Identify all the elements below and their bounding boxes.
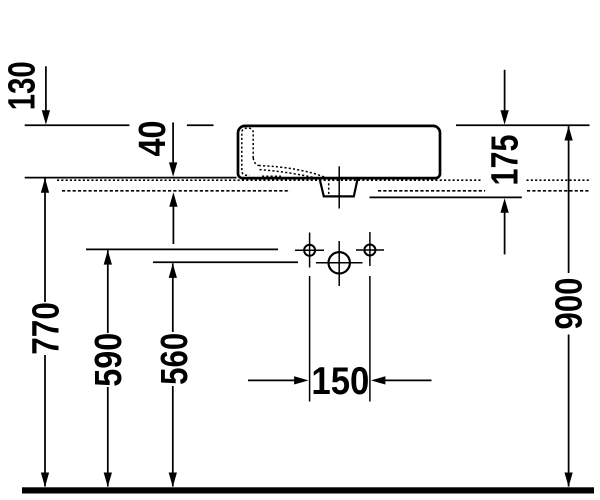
level line 590 — [86, 248, 278, 250]
counter underside dashed line right — [527, 190, 590, 192]
rim level line left segment — [25, 124, 130, 126]
counter underside dashed line middle — [378, 190, 485, 192]
extension line from right hole — [369, 276, 371, 402]
dimension 40 lower arrow — [172, 206, 174, 244]
basin outline — [238, 126, 440, 178]
counter top dotted line — [57, 179, 481, 181]
dimension 560 line — [172, 263, 174, 332]
faucet hole small left circle — [304, 245, 315, 256]
dimension 130 arrow — [45, 66, 47, 111]
dimension 150 left arrow — [248, 379, 295, 381]
svg-text:900: 900 — [549, 278, 591, 330]
svg-text:560: 560 — [154, 333, 196, 385]
dimension 590 line — [107, 250, 109, 333]
basin bottom slope dotted upper — [259, 166, 327, 179]
extension line from left hole — [309, 276, 311, 402]
floor line — [22, 487, 594, 493]
counter top line — [25, 177, 237, 179]
counter top dotted line right — [527, 179, 590, 181]
dimension 175 lower arrow — [504, 212, 506, 254]
faucet hole large crosshair — [316, 262, 363, 264]
basin inner wall dotted profile — [242, 128, 253, 175]
svg-text:150: 150 — [311, 360, 369, 403]
drain interior dotted line — [328, 179, 330, 196]
svg-text:40: 40 — [132, 120, 174, 156]
faucet hole large circle — [329, 252, 350, 273]
basin wall junction curve — [253, 158, 258, 166]
basin bottom level line — [370, 196, 522, 198]
basin floor dotted segment left — [262, 175, 281, 177]
drain trapezoid — [319, 178, 358, 197]
level line 560 — [153, 261, 298, 263]
drain centerline — [338, 166, 340, 208]
dimension 175 upper arrow — [504, 70, 506, 111]
rim level line right segment — [456, 124, 590, 126]
counter underside dashed line left — [62, 190, 290, 192]
dimension 150 right arrow — [385, 379, 432, 381]
dimension 40 upper arrow — [172, 122, 174, 163]
svg-text:175: 175 — [484, 135, 526, 186]
svg-text:590: 590 — [88, 333, 130, 387]
rim level line middle segment — [187, 124, 214, 126]
faucet hole small right circle — [364, 245, 375, 256]
faucet hole small right crosshair — [356, 249, 384, 251]
svg-text:130: 130 — [1, 61, 43, 110]
basin bottom slope dotted lower — [260, 170, 323, 180]
dimension 770 line — [44, 179, 46, 303]
faucet hole small left crosshair — [295, 249, 324, 251]
dimension 900 line — [568, 126, 570, 273]
svg-text:770: 770 — [26, 302, 68, 355]
